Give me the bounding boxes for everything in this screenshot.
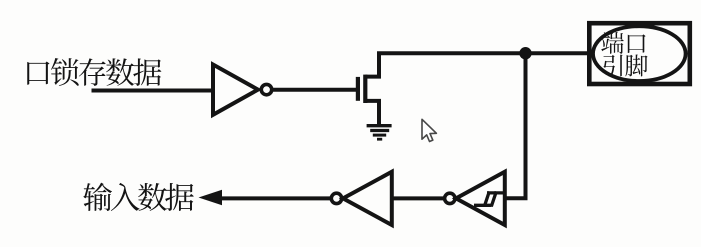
wire: Q1 drain to port-pin box	[377, 51, 588, 55]
wire: latch-data line to inverter U1 input	[92, 89, 215, 93]
label "口锁存数据" (port latch data)	[27, 58, 161, 86]
mouse cursor arrow	[422, 119, 436, 141]
op-amp/inverter U1 (output inverter, with bubble)	[213, 65, 272, 115]
label "端口引脚" (port pin), two lines	[601, 32, 647, 76]
wire: U1 output bubble to transistor Q1 gate	[272, 88, 356, 92]
port pin box (端口引脚)	[589, 23, 690, 84]
wire: U3 output bubble to inverter U2 input	[393, 196, 445, 200]
node A: junction dot on pin line	[519, 47, 531, 59]
arrowhead into 输入数据	[199, 190, 223, 205]
Schmitt trigger U3 (input buffer, pointing left, with bubble)	[445, 172, 505, 225]
wire: node A down to Schmitt trigger U3 input	[503, 53, 526, 198]
label "输入数据" (input data)	[83, 183, 194, 211]
op-amp/inverter U2 (input inverter, pointing left, with bubble)	[331, 172, 392, 225]
wire: U2 output to input-data arrow	[221, 196, 331, 200]
ground symbol under Q1 source	[367, 126, 392, 140]
transistor Q1 (open-drain NMOS driver)	[358, 53, 379, 126]
